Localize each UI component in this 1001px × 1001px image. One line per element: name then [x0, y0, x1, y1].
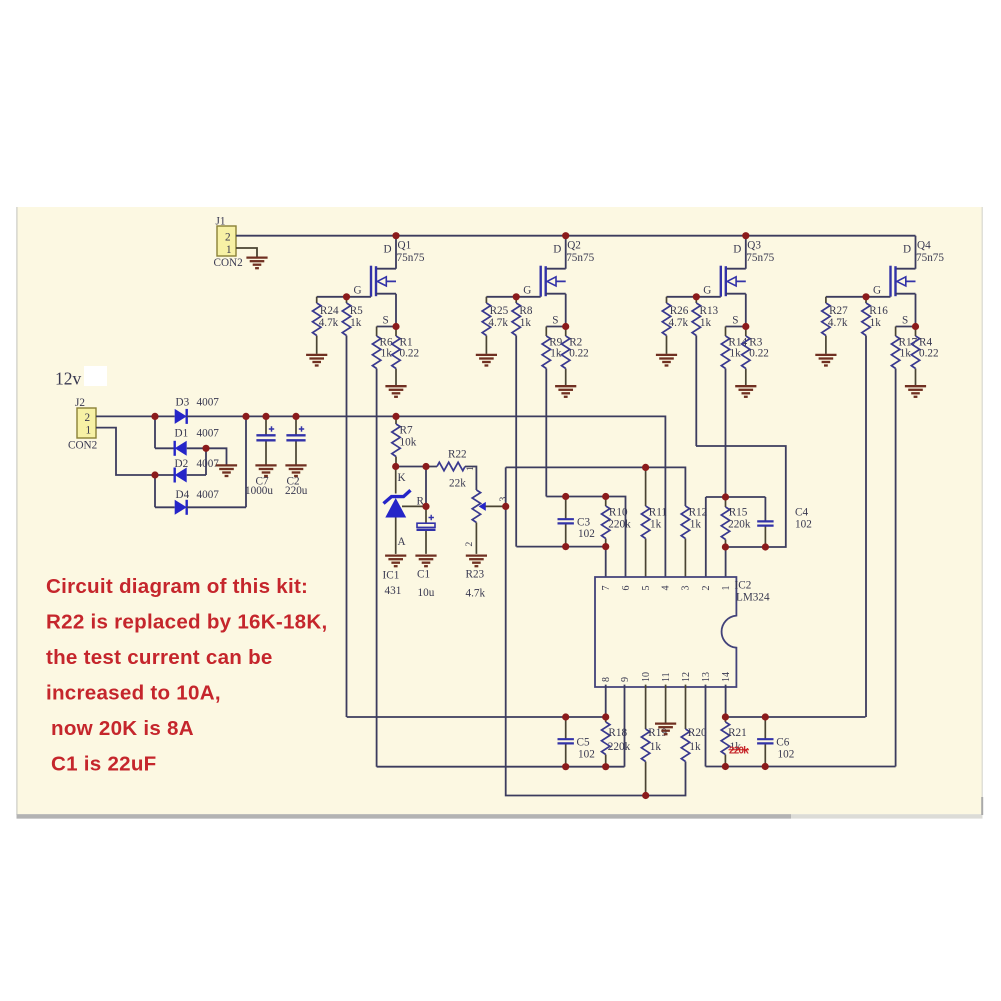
junction	[242, 413, 249, 420]
svg-text:1k: 1k	[700, 317, 712, 329]
wire OUT1 net to pin1 and R13	[696, 446, 786, 577]
resistor R10 220k	[602, 497, 632, 547]
svg-text:220k: 220k	[608, 519, 631, 531]
wire IN3- net pin9 row	[377, 685, 625, 767]
svg-text:R21: R21	[728, 727, 747, 739]
svg-text:2: 2	[225, 232, 231, 244]
svg-text:R22: R22	[448, 449, 467, 461]
connector J2	[68, 397, 97, 452]
svg-text:S: S	[902, 315, 908, 327]
wire pin11 to ground	[665, 685, 667, 723]
junction	[602, 713, 609, 720]
junction	[151, 413, 158, 420]
wire R14 tail	[725, 369, 727, 498]
junction	[762, 543, 769, 550]
svg-text:K: K	[398, 472, 406, 484]
resistor R2 0.22	[562, 327, 589, 386]
svg-text:R18: R18	[608, 727, 627, 739]
resistor R4 0.22	[911, 327, 938, 386]
wire OUT2 net to pin7	[516, 547, 605, 577]
svg-text:R16: R16	[869, 305, 888, 317]
op-amp U-IC2 LM324	[595, 577, 770, 687]
wire K to R tie	[425, 467, 427, 507]
potentiometer R23 4.7k	[465, 466, 509, 600]
svg-text:1k: 1k	[730, 348, 742, 360]
svg-text:220k: 220k	[729, 746, 749, 757]
svg-text:1k: 1k	[689, 741, 701, 753]
resistor R21 1k	[721, 717, 747, 767]
ground	[476, 355, 497, 366]
svg-text:102: 102	[795, 519, 812, 531]
svg-text:0.22: 0.22	[919, 348, 939, 360]
svg-text:5: 5	[641, 586, 652, 591]
svg-text:S: S	[732, 315, 738, 327]
capacitor C3 102	[558, 497, 595, 547]
svg-text:LM324: LM324	[736, 592, 770, 604]
node gate Q3	[693, 293, 700, 300]
svg-text:R12: R12	[689, 507, 708, 519]
svg-text:75n75: 75n75	[397, 252, 425, 264]
wire gate net Q4	[826, 296, 891, 298]
node gate Q2	[513, 293, 520, 300]
node source Q1	[392, 323, 399, 330]
svg-text:C6: C6	[776, 737, 789, 749]
wire IN4- net pin13 row	[706, 685, 896, 767]
svg-text:12: 12	[681, 672, 692, 682]
svg-text:R25: R25	[490, 305, 509, 317]
wire source net Q2	[546, 326, 565, 328]
svg-text:D2: D2	[175, 458, 189, 470]
node drain Q2	[562, 232, 569, 239]
capacitor C1 10u	[417, 506, 436, 599]
svg-text:the test current can be: the test current can be	[46, 646, 273, 669]
svg-text:S: S	[552, 315, 558, 327]
wire +12V rail to LM324 pin4	[187, 416, 666, 577]
svg-text:IC1: IC1	[383, 570, 400, 582]
wire J1 pin1 to ground	[236, 248, 257, 257]
svg-text:R23: R23	[466, 569, 485, 581]
diode D3 4007	[175, 397, 220, 424]
wire D3 anode to D1 cathode	[155, 416, 175, 448]
resistor R19 1k	[641, 685, 667, 796]
svg-text:R19: R19	[648, 727, 667, 739]
junction	[151, 471, 158, 478]
svg-text:8: 8	[601, 677, 612, 682]
node gate Q1	[343, 293, 350, 300]
node drain Q1	[392, 232, 399, 239]
resistor R22 22k	[437, 449, 467, 490]
svg-text:13: 13	[701, 672, 712, 682]
svg-text:3: 3	[499, 497, 509, 502]
transistor Q2	[523, 236, 594, 327]
wire +12V top rail	[236, 235, 916, 237]
diode D4 4007	[175, 489, 220, 515]
junction	[392, 463, 399, 470]
svg-text:1k: 1k	[690, 519, 702, 531]
svg-text:G: G	[703, 285, 711, 297]
ground	[905, 386, 926, 397]
junction	[602, 543, 609, 550]
resistor R7 10k	[392, 416, 417, 466]
svg-text:CON2: CON2	[68, 440, 97, 452]
ground	[255, 465, 276, 476]
svg-text:R5: R5	[350, 305, 363, 317]
junction	[762, 763, 769, 770]
svg-text:increased to 10A,: increased to 10A,	[46, 682, 221, 705]
svg-text:4.7k: 4.7k	[466, 588, 486, 600]
svg-text:1k: 1k	[650, 741, 662, 753]
resistor R26 4.7k	[662, 297, 688, 354]
svg-text:D: D	[384, 244, 392, 256]
wire D1/D2 anodes to ground	[187, 448, 227, 465]
svg-text:11: 11	[661, 672, 672, 682]
resistor R14 1k	[721, 327, 747, 369]
resistor R24 4.7k	[313, 297, 339, 354]
svg-text:4: 4	[661, 586, 672, 591]
resistor R1 0.22	[392, 327, 419, 386]
node source Q2	[562, 323, 569, 330]
wire OUT4 net pin14 row	[725, 685, 865, 717]
svg-text:75n75: 75n75	[566, 252, 594, 264]
resistor R13 1k	[692, 297, 718, 336]
junction	[562, 763, 569, 770]
svg-text:Circuit diagram of this kit:: Circuit diagram of this kit:	[46, 575, 308, 598]
wire R8 tail	[515, 336, 517, 547]
node drain Q3	[742, 232, 749, 239]
ground	[555, 386, 576, 397]
junction	[562, 713, 569, 720]
svg-text:1k: 1k	[650, 519, 662, 531]
svg-text:4.7k: 4.7k	[488, 317, 508, 329]
wire R9 tail	[545, 369, 547, 497]
svg-text:A: A	[398, 536, 406, 548]
scrollbar track	[17, 814, 983, 818]
wire IN1- net to pin2	[706, 497, 766, 577]
junction	[642, 792, 649, 799]
wire R6 tail	[376, 369, 378, 767]
svg-text:10u: 10u	[418, 587, 435, 599]
wire IN2- net to pin6	[546, 497, 625, 578]
ground	[415, 556, 436, 567]
svg-text:J2: J2	[75, 397, 85, 409]
svg-text:10k: 10k	[400, 437, 417, 449]
ground	[246, 258, 267, 269]
svg-text:C4: C4	[795, 507, 808, 519]
wire wiper net vertical + bottom bus	[506, 467, 686, 795]
diode D1 4007	[175, 428, 220, 456]
svg-text:0.22: 0.22	[749, 348, 769, 360]
svg-text:Q1: Q1	[398, 240, 412, 252]
svg-text:R26: R26	[670, 305, 689, 317]
op-amp IC1 431 (TL431)	[383, 467, 427, 598]
wire source net Q1	[377, 326, 396, 328]
svg-text:IC2: IC2	[735, 580, 752, 592]
svg-text:1000u: 1000u	[245, 485, 273, 497]
junction	[602, 493, 609, 500]
svg-text:102: 102	[578, 749, 595, 761]
ground	[655, 724, 676, 735]
junction	[602, 763, 609, 770]
resistor R3 0.22	[742, 327, 769, 386]
wire gate net Q3	[667, 296, 721, 298]
resistor R12 1k	[681, 506, 707, 577]
svg-text:75n75: 75n75	[746, 252, 774, 264]
wire D4 cathode to +12V	[187, 416, 246, 507]
svg-text:1k: 1k	[870, 317, 882, 329]
junction	[642, 464, 649, 471]
wire R17 tail	[895, 369, 897, 767]
junction	[722, 713, 729, 720]
svg-text:R20: R20	[688, 727, 707, 739]
svg-text:D3: D3	[176, 397, 190, 409]
junction	[562, 493, 569, 500]
svg-text:4007: 4007	[197, 397, 220, 409]
wire R13 tail	[695, 336, 697, 447]
svg-text:4.7k: 4.7k	[669, 317, 689, 329]
wire R5 tail	[346, 336, 348, 718]
junction	[262, 413, 269, 420]
svg-text:3: 3	[681, 586, 692, 591]
junction	[722, 763, 729, 770]
wire source net Q4	[896, 326, 916, 328]
svg-text:1: 1	[721, 586, 732, 591]
svg-text:G: G	[873, 285, 881, 297]
resistor R11 1k	[641, 467, 667, 577]
svg-text:D1: D1	[175, 428, 189, 440]
svg-text:22k: 22k	[449, 478, 466, 490]
wire R16 tail	[865, 336, 867, 718]
wire D2 anode	[187, 448, 206, 475]
svg-text:10: 10	[641, 672, 652, 682]
svg-text:7: 7	[601, 586, 612, 591]
svg-text:S: S	[383, 315, 389, 327]
svg-text:C1 is 22uF: C1 is 22uF	[51, 753, 157, 776]
connector J1	[214, 216, 243, 270]
ground	[216, 465, 237, 476]
ground	[656, 355, 677, 366]
svg-text:9: 9	[620, 677, 631, 682]
resistor R17 1k	[891, 327, 917, 369]
wire D2 cathode to D4 anode	[155, 475, 175, 507]
transistor Q4	[873, 236, 944, 327]
scrollbar thumb	[17, 814, 792, 818]
transistor Q3	[703, 236, 774, 327]
ground	[815, 355, 836, 366]
svg-text:220k: 220k	[728, 519, 751, 531]
resistor R9 1k	[542, 327, 563, 369]
ground	[385, 386, 406, 397]
ground	[466, 556, 487, 567]
ground	[385, 556, 406, 567]
wire R22 to R23 pot	[465, 467, 476, 491]
svg-text:now 20K is 8A: now 20K is 8A	[51, 717, 194, 740]
resistor R25 4.7k	[482, 297, 508, 354]
resistor R18 220k	[602, 717, 631, 767]
svg-text:4.7k: 4.7k	[828, 317, 848, 329]
svg-text:220u: 220u	[285, 485, 308, 497]
svg-text:2: 2	[465, 542, 475, 547]
resistor R6 1k	[372, 327, 393, 369]
svg-text:R13: R13	[700, 305, 719, 317]
svg-text:D4: D4	[176, 489, 190, 501]
capacitor C5 102	[558, 717, 595, 767]
junction	[562, 543, 569, 550]
svg-text:Q3: Q3	[747, 240, 761, 252]
svg-text:4.7k: 4.7k	[319, 317, 339, 329]
svg-text:C1: C1	[417, 569, 430, 581]
svg-text:1k: 1k	[350, 317, 362, 329]
svg-text:R7: R7	[400, 425, 413, 437]
svg-text:G: G	[354, 285, 362, 297]
svg-text:C5: C5	[577, 737, 590, 749]
resistor R20 1k	[681, 685, 707, 762]
transistor Q1	[354, 236, 425, 327]
svg-text:220k: 220k	[608, 741, 631, 753]
junction	[422, 503, 429, 510]
svg-text:G: G	[523, 285, 531, 297]
wire source net Q3	[726, 326, 746, 328]
schematic canvas	[17, 207, 983, 815]
wire gate net Q2	[486, 296, 540, 298]
svg-text:J1: J1	[216, 216, 226, 228]
svg-text:2: 2	[701, 586, 712, 591]
svg-text:1: 1	[466, 466, 476, 471]
svg-text:R27: R27	[829, 305, 848, 317]
node gate Q4	[862, 293, 869, 300]
svg-text:Q2: Q2	[567, 240, 581, 252]
svg-text:1k: 1k	[900, 348, 912, 360]
ground	[306, 355, 327, 366]
svg-text:R15: R15	[729, 507, 748, 519]
ground	[735, 386, 756, 397]
svg-text:R8: R8	[519, 305, 532, 317]
svg-text:2: 2	[85, 412, 91, 424]
node source Q3	[742, 323, 749, 330]
svg-text:6: 6	[621, 586, 632, 591]
svg-text:CON2: CON2	[214, 257, 243, 269]
diode D2 4007	[175, 458, 220, 483]
wire OUT3 net pin8 row	[347, 685, 606, 717]
svg-text:0.22: 0.22	[569, 348, 589, 360]
resistor R5 1k	[342, 297, 363, 336]
junction	[502, 503, 509, 510]
svg-text:431: 431	[385, 585, 402, 597]
junction	[392, 413, 399, 420]
junction	[722, 493, 729, 500]
resistor R8 1k	[512, 297, 533, 336]
svg-text:1: 1	[226, 244, 232, 256]
node source Q4	[912, 323, 919, 330]
svg-text:14: 14	[721, 672, 732, 682]
svg-text:102: 102	[578, 528, 595, 540]
wire J2 pin2 to D3	[96, 415, 175, 417]
svg-text:1: 1	[86, 425, 92, 437]
svg-text:75n75: 75n75	[916, 252, 944, 264]
capacitor C7 1000u	[245, 416, 276, 497]
svg-text:D: D	[903, 244, 911, 256]
svg-text:0.22: 0.22	[400, 348, 420, 360]
svg-text:C3: C3	[577, 517, 590, 529]
junction	[422, 463, 429, 470]
junction	[202, 445, 209, 452]
svg-text:12v: 12v	[55, 369, 82, 389]
svg-text:R22 is replaced by 16K-18K,: R22 is replaced by 16K-18K,	[46, 611, 327, 634]
capacitor C4 102	[757, 507, 812, 548]
svg-text:Q4: Q4	[917, 240, 931, 252]
junction	[762, 713, 769, 720]
capacitor C6 102	[757, 717, 794, 767]
svg-text:D: D	[553, 244, 561, 256]
svg-text:R11: R11	[649, 507, 667, 519]
svg-text:R24: R24	[320, 305, 339, 317]
svg-text:4007: 4007	[197, 458, 220, 470]
resistor R16 1k	[862, 297, 888, 336]
svg-text:R10: R10	[609, 507, 628, 519]
wire gate net Q1	[317, 296, 371, 298]
svg-text:1k: 1k	[520, 317, 532, 329]
wire K node to R22	[396, 466, 437, 468]
svg-text:4007: 4007	[197, 489, 220, 501]
svg-text:1k: 1k	[381, 348, 393, 360]
junction	[292, 413, 299, 420]
svg-text:D: D	[733, 244, 741, 256]
svg-text:1k: 1k	[550, 348, 562, 360]
svg-text:102: 102	[778, 749, 795, 761]
resistor R27 4.7k	[822, 297, 848, 354]
capacitor C2 220u	[285, 416, 308, 497]
ground	[285, 465, 306, 476]
wire J2 pin1	[96, 428, 155, 475]
wire wiper net to R11 R12	[506, 467, 686, 506]
resistor R15 220k	[721, 497, 751, 547]
svg-text:4007: 4007	[197, 428, 220, 440]
junction	[722, 543, 729, 550]
